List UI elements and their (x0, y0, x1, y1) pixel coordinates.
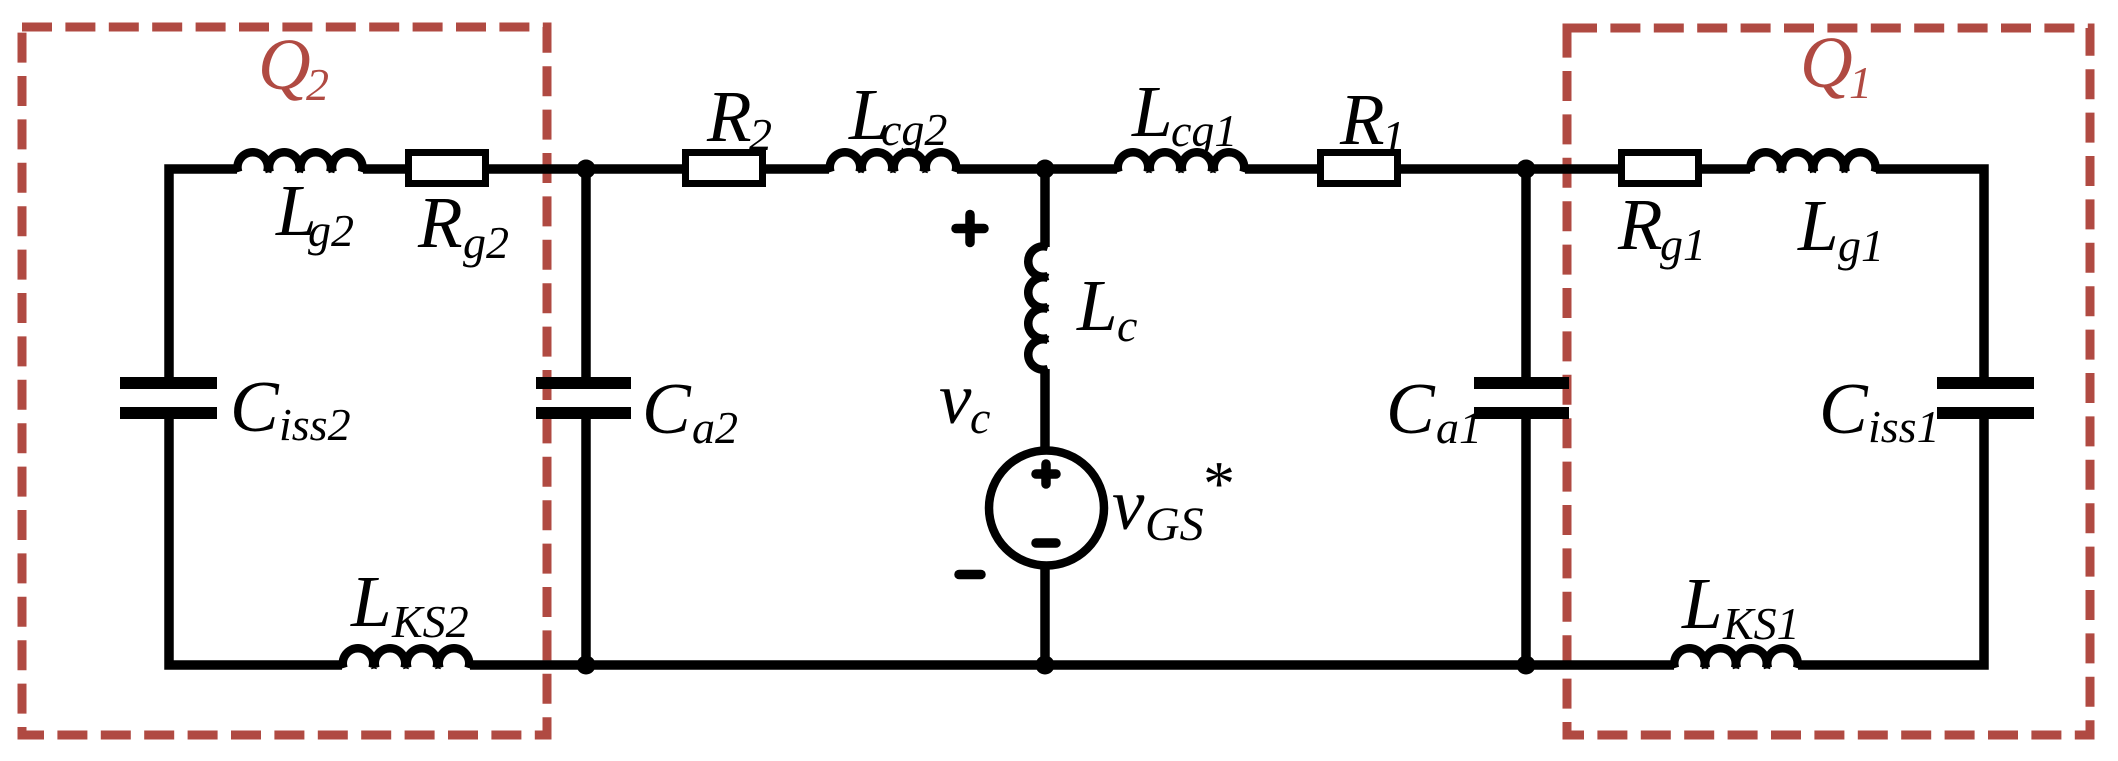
resistor Rg1 (1622, 153, 1699, 184)
dashed box Q2 (22, 27, 547, 735)
svg-text:2: 2 (749, 109, 772, 160)
svg-text:KS1: KS1 (1722, 598, 1800, 649)
wire (1401, 164, 1618, 174)
svg-text:L: L (1681, 563, 1723, 644)
svg-text:C: C (230, 366, 280, 447)
svg-text:g2: g2 (308, 205, 354, 256)
svg-text:Q: Q (1800, 22, 1853, 103)
svg-text:R: R (706, 76, 752, 157)
svg-text:c: c (1117, 300, 1137, 351)
wire (766, 164, 829, 174)
inductor LKS2 (343, 648, 469, 668)
label Q1 (1800, 22, 1872, 108)
capacitor Ciss2 (120, 377, 217, 389)
wire (957, 164, 1117, 174)
node B center top (1036, 160, 1055, 179)
svg-text:iss2: iss2 (279, 399, 351, 450)
plus node marker (956, 215, 984, 243)
inductor Lcg1 (1118, 152, 1244, 172)
capacitor Ca2 (536, 377, 631, 389)
svg-text:1: 1 (1382, 111, 1405, 162)
node C top (before Q1) (1517, 160, 1536, 179)
dashed box Q1 (1567, 28, 2090, 735)
capacitor Ciss1 (1937, 377, 2034, 389)
svg-text:2: 2 (306, 59, 329, 110)
svg-text:R: R (1617, 184, 1663, 265)
svg-text:GS: GS (1145, 498, 1204, 551)
svg-text:C: C (1819, 368, 1869, 449)
svg-text:g2: g2 (463, 217, 509, 268)
wire Lc top stub (1040, 169, 1050, 247)
capacitor Ca2 bottom stub (581, 418, 591, 665)
svg-text:R: R (417, 182, 463, 263)
svg-text:*: * (1200, 448, 1232, 519)
node bottom Ca1 (1517, 656, 1536, 675)
inductor LKS1 (1674, 648, 1797, 668)
svg-text:C: C (642, 368, 692, 449)
inductor Lc (1028, 246, 1048, 369)
svg-text:cg1: cg1 (1171, 105, 1237, 156)
wire (363, 164, 405, 174)
svg-text:c: c (970, 392, 990, 443)
inductor Lg1 (1750, 152, 1875, 172)
svg-text:KS2: KS2 (391, 596, 469, 647)
inductor Lcg2 (830, 152, 956, 172)
svg-text:v: v (939, 358, 972, 439)
svg-text:a2: a2 (692, 402, 738, 453)
svg-text:L: L (1076, 265, 1118, 346)
resistor R2 (686, 153, 763, 184)
wire source bottom stub (1040, 564, 1050, 665)
label Q2 (258, 24, 329, 110)
svg-text:a1: a1 (1436, 402, 1482, 453)
node A top (after Q2) (577, 160, 596, 179)
svg-text:Q: Q (258, 24, 311, 105)
capacitor Ca1 bottom stub (1521, 418, 1531, 665)
svg-text:L: L (350, 561, 392, 642)
wire top-left corner and left vertical (169, 169, 237, 378)
wire left-bottom vertical and corner (169, 418, 342, 665)
wire right-bottom vertical and corner (1798, 418, 1984, 665)
node bottom Ca2 (577, 656, 596, 675)
wire (489, 164, 682, 174)
svg-text:iss1: iss1 (1868, 401, 1940, 452)
svg-text:R: R (1339, 79, 1385, 160)
minus node marker (959, 570, 981, 580)
wire (1702, 164, 1750, 174)
wire top-right corner and right vertical (1876, 169, 1984, 378)
svg-text:1: 1 (1849, 57, 1872, 108)
wire Lc bottom stub (1040, 369, 1050, 452)
svg-text:C: C (1386, 368, 1436, 449)
inductor Lg2 (238, 152, 363, 172)
svg-text:L: L (1797, 185, 1839, 266)
resistor Rg2 (409, 153, 486, 184)
capacitor Ca2 top stub (581, 169, 591, 378)
svg-text:L: L (1131, 71, 1173, 152)
resistor R1 (1321, 153, 1398, 184)
svg-text:cg2: cg2 (881, 104, 947, 155)
wire (1245, 164, 1317, 174)
capacitor Ca1 top stub (1521, 169, 1531, 378)
capacitor Ca1 (1474, 377, 1569, 389)
svg-text:g1: g1 (1660, 219, 1706, 270)
node bottom center (1036, 656, 1055, 675)
svg-text:v: v (1112, 464, 1145, 545)
wire bottom run (470, 660, 1674, 670)
voltage source vGS (989, 451, 1104, 566)
svg-text:g1: g1 (1838, 220, 1884, 271)
